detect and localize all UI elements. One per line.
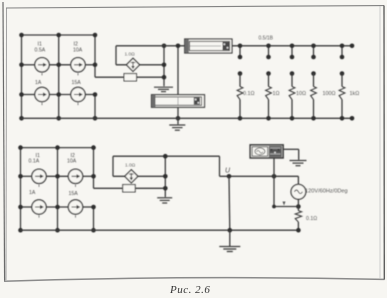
svg-text:1A: 1A — [29, 190, 36, 196]
svg-text:0.1Ω: 0.1Ω — [243, 91, 255, 97]
svg-text:0.5A: 0.5A — [35, 48, 46, 54]
svg-text:15A: 15A — [69, 191, 79, 197]
svg-text:1A: 1A — [35, 80, 42, 86]
svg-text:0.1A: 0.1A — [29, 159, 40, 165]
svg-text:10A: 10A — [67, 159, 77, 165]
svg-text:1.0Ω: 1.0Ω — [125, 52, 136, 58]
svg-text:1.0Ω: 1.0Ω — [125, 163, 136, 169]
svg-text:10A: 10A — [73, 48, 83, 54]
svg-text:1kΩ: 1kΩ — [350, 91, 360, 97]
svg-text:0.5/1B: 0.5/1B — [259, 36, 274, 42]
svg-text:10Ω: 10Ω — [296, 91, 306, 97]
svg-text:0.1Ω: 0.1Ω — [306, 216, 317, 222]
svg-text:1Ω: 1Ω — [273, 91, 280, 97]
svg-text:120V/60Hz/0Deg: 120V/60Hz/0Deg — [305, 189, 348, 195]
svg-text:Рис. 2.6: Рис. 2.6 — [169, 284, 210, 296]
svg-text:100Ω: 100Ω — [323, 91, 336, 97]
svg-text:15A: 15A — [72, 80, 82, 86]
